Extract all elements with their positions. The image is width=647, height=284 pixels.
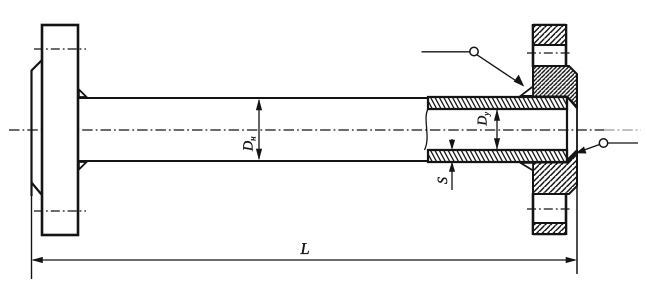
left flange bolt axis top	[34, 48, 86, 50]
weld bead right top	[521, 86, 534, 96]
right flange bolt axis top	[527, 52, 572, 54]
right flange hub bottom line	[533, 193, 569, 195]
right flange face line	[576, 74, 578, 186]
pipe end edge	[566, 97, 568, 162]
extension line right	[576, 186, 578, 274]
right flange ring	[533, 24, 566, 235]
pipe wall section bottom	[422, 150, 574, 162]
leader 1 horizontal	[422, 51, 470, 53]
svg-text:L: L	[300, 239, 310, 258]
pipe outer top line	[78, 97, 428, 99]
dimension L line	[32, 257, 578, 263]
axis centerline	[9, 129, 604, 131]
weld bevel bottom	[567, 151, 577, 161]
right flange bottom cap section	[534, 224, 565, 234]
dimension S arrows	[449, 139, 455, 190]
leader 2 horizontal	[608, 142, 638, 144]
right flange bottom cap line	[533, 222, 566, 224]
dimension Dy arrow	[494, 109, 500, 149]
right flange top cap section	[534, 26, 565, 45]
right flange bolt axis bottom	[527, 208, 572, 210]
left flange neck strip	[30, 70, 32, 196]
leader 1 circle	[470, 47, 478, 55]
extension line left	[31, 196, 33, 279]
weld fillet left top	[79, 90, 87, 98]
pipe wall section top	[422, 97, 574, 109]
leader 2 circle	[599, 139, 607, 147]
right flange hub bottom section	[533, 152, 577, 194]
leader 2 arrow	[576, 145, 600, 154]
weld bead right bottom	[521, 163, 534, 171]
pipe outer bottom line	[78, 160, 428, 162]
right flange hub top line	[533, 65, 569, 67]
left flange chamfer top	[32, 61, 42, 71]
left flange body	[42, 25, 78, 235]
svg-text:S: S	[436, 177, 451, 184]
weld bevel top	[567, 97, 577, 108]
left flange bolt axis bottom	[34, 210, 86, 212]
right flange top cap line	[533, 44, 566, 46]
dimension Dn arrow	[256, 99, 262, 160]
pipe break line	[425, 109, 429, 150]
right flange hub top section	[533, 66, 577, 107]
leader 1 arrow	[477, 55, 524, 87]
weld fillet left bottom	[79, 162, 87, 170]
left flange chamfer bottom	[32, 183, 42, 195]
